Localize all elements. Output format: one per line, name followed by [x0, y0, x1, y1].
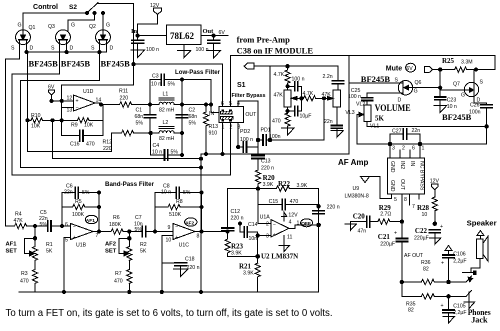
svg-text:220: 220 — [103, 146, 112, 152]
svg-text:C3: C3 — [152, 74, 159, 80]
svg-text:3.9K: 3.9K — [231, 251, 242, 257]
wire U1B noninverting to rail — [64, 237, 71, 292]
potentiometer 47K left — [274, 90, 299, 107]
node left pot bottom — [286, 110, 289, 113]
svg-text:910: 910 — [209, 131, 218, 137]
svg-text:C4: C4 — [153, 143, 160, 149]
row2 AF out to phones ring — [402, 295, 421, 297]
svg-text:NC BYPASS: NC BYPASS — [419, 161, 425, 191]
node R21 top — [256, 255, 260, 259]
wire x201 vertical to rail — [200, 154, 203, 292]
node preamp line — [286, 65, 289, 68]
capacitor C106 2.2uF — [441, 246, 467, 283]
wire 6V rail to S1 pin6 — [134, 64, 223, 107]
wire U1C output to C12 node — [195, 231, 228, 233]
capacitor C21 220uF — [378, 222, 408, 297]
oval OFF — [301, 219, 313, 227]
svg-text:82: 82 — [423, 267, 429, 273]
node R1 top — [33, 224, 36, 227]
svg-text:5%: 5% — [168, 82, 176, 88]
svg-text:G: G — [71, 23, 75, 29]
svg-text:S: S — [51, 46, 55, 52]
resistor R9 10K feedback — [62, 118, 103, 129]
svg-text:8: 8 — [404, 197, 407, 203]
svg-text:22n: 22n — [64, 190, 73, 196]
wire U1A noninverting input — [256, 234, 271, 256]
svg-text:10K: 10K — [84, 123, 94, 129]
resistor R4 47K — [14, 212, 48, 229]
wire S2 to BF245B rail — [97, 4, 134, 65]
node feedback rails U1B — [98, 191, 101, 233]
svg-text:6V: 6V — [406, 66, 413, 72]
svg-text:2.2n: 2.2n — [323, 74, 333, 80]
svg-text:Band-Pass Filter: Band-Pass Filter — [105, 181, 154, 188]
wire S1 pin5 up to audio line — [229, 56, 231, 107]
wire node B vertical — [181, 80, 183, 133]
svg-text:9: 9 — [168, 225, 171, 231]
resistor R25 3.3M — [440, 57, 476, 72]
resistor R11 220 — [118, 89, 150, 108]
capacitor PD1 100n — [256, 128, 280, 146]
capacitor C25 100n — [348, 88, 373, 105]
svg-text:100 n: 100 n — [146, 47, 159, 53]
svg-text:S2: S2 — [69, 4, 77, 11]
svg-text:22n: 22n — [324, 119, 333, 125]
resistor R23 3.9K — [225, 232, 258, 257]
capacitor 100n bias — [288, 77, 305, 112]
potentiometer VOLUME 5K — [345, 103, 410, 123]
svg-text:+: + — [394, 231, 397, 237]
resistor R8 510K feedback — [155, 199, 202, 218]
wire bandpass input line — [6, 225, 15, 227]
oval AF2 — [185, 218, 197, 227]
svg-text:5%: 5% — [136, 121, 144, 127]
svg-text:−: − — [175, 225, 178, 231]
svg-text:220: 220 — [120, 96, 129, 102]
switch S2 — [85, 3, 104, 15]
ground U1A pin11 — [279, 236, 290, 252]
svg-text:AF2: AF2 — [105, 242, 116, 248]
svg-text:5%: 5% — [189, 121, 197, 127]
svg-text:S: S — [91, 46, 95, 52]
capacitor C8 10n 5% feedback — [155, 184, 202, 232]
wire AF line to volume drop — [201, 153, 349, 155]
svg-text:6: 6 — [221, 101, 224, 107]
svg-text:Mute: Mute — [386, 66, 402, 73]
svg-text:3.3M: 3.3M — [461, 60, 473, 66]
capacitor C4 10n 5% — [151, 133, 184, 160]
svg-text:12V: 12V — [288, 213, 298, 219]
wire S1 pin3 to PD2 line — [237, 122, 239, 147]
svg-text:Low-Pass Filter: Low-Pass Filter — [175, 69, 220, 76]
svg-text:R25: R25 — [442, 57, 455, 65]
svg-text:82 mH: 82 mH — [159, 108, 175, 114]
svg-text:5K: 5K — [140, 249, 147, 255]
svg-text:GND: GND — [389, 180, 395, 192]
svg-text:C105: C105 — [453, 304, 466, 310]
potentiometer R1 5K — [25, 226, 53, 270]
potentiometer R2 5K — [119, 232, 147, 270]
svg-text:470: 470 — [20, 279, 29, 285]
switch S1 box — [209, 101, 257, 130]
svg-text:AF2: AF2 — [185, 220, 194, 226]
svg-text:U9: U9 — [353, 186, 360, 192]
svg-text:SET: SET — [105, 249, 117, 255]
wire U1A output down to rail — [318, 225, 320, 292]
wire Q6 source line — [349, 82, 403, 84]
svg-text:C26: C26 — [470, 103, 480, 109]
ground right pot — [330, 131, 343, 138]
svg-text:OUT: OUT — [399, 179, 405, 191]
svg-text:220 n: 220 n — [261, 166, 274, 172]
ground at 78L62 input cap — [131, 50, 145, 58]
capacitor C1 68n 5% — [135, 105, 156, 134]
svg-text:7: 7 — [412, 204, 415, 210]
phones jack switch contact — [463, 271, 477, 275]
svg-text:47K: 47K — [322, 92, 332, 98]
svg-text:SET: SET — [6, 249, 18, 255]
svg-text:R20: R20 — [263, 174, 276, 182]
inductor L2 82mH — [151, 120, 182, 142]
phones jack tip contact — [462, 276, 473, 282]
svg-text:R8: R8 — [176, 199, 183, 205]
capacitor C5 22n 5% — [39, 210, 71, 231]
oval AF1 — [85, 215, 97, 224]
wire U1D inverting input to feedback — [62, 107, 74, 109]
wire speaker to jack contact — [471, 259, 480, 273]
capacitor C3 10n 5% — [150, 74, 182, 105]
node C106 bottom — [447, 280, 450, 283]
svg-text:C1: C1 — [136, 108, 143, 114]
svg-text:6V: 6V — [219, 30, 226, 36]
node B top rail — [180, 78, 183, 81]
svg-text:47K: 47K — [14, 218, 24, 224]
resistor R28 10 — [417, 197, 437, 224]
svg-text:10n: 10n — [249, 236, 258, 242]
svg-text:OFF: OFF — [301, 221, 311, 227]
node R2 top — [128, 230, 131, 233]
svg-text:U1D: U1D — [83, 89, 94, 95]
capacitor C14 10n — [239, 222, 258, 242]
svg-text:VOLUME: VOLUME — [375, 103, 411, 113]
resistor R6 180K — [109, 215, 129, 234]
wire Q7 gate to bias node — [440, 89, 464, 91]
svg-text:R28: R28 — [417, 204, 430, 212]
wire R22 C15 right vertical — [317, 189, 320, 225]
svg-text:C12: C12 — [231, 209, 241, 215]
svg-text:470: 470 — [272, 119, 281, 125]
svg-text:2.7Ω: 2.7Ω — [380, 212, 391, 218]
capacitor 22n right pot — [324, 107, 342, 132]
wire amp input line — [357, 142, 487, 145]
wire filter output to S1 IN — [182, 105, 219, 113]
svg-text:Filter Bypass: Filter Bypass — [232, 93, 266, 99]
svg-text:Control: Control — [33, 4, 58, 11]
svg-text:10K: 10K — [31, 124, 41, 130]
svg-text:5%: 5% — [171, 150, 179, 156]
phones jack ring contact — [462, 291, 472, 303]
svg-text:D: D — [30, 46, 34, 52]
svg-text:5: 5 — [65, 238, 68, 244]
svg-text:68n: 68n — [189, 114, 198, 120]
ground C23 — [434, 106, 447, 113]
wire row1 to tip contact — [449, 281, 465, 283]
resistor R5 100K feedback — [62, 199, 99, 218]
svg-text:AF OUT: AF OUT — [404, 253, 424, 259]
node B mid — [180, 103, 183, 106]
wire Q1 gate to S2 contact 1 — [23, 13, 87, 30]
node mute gate bias — [439, 86, 442, 89]
wire pot bottom — [287, 107, 289, 114]
svg-text:6: 6 — [65, 222, 68, 228]
wire Q3 source to S1 pin2 bus — [12, 40, 59, 175]
svg-text:−: − — [76, 106, 79, 112]
svg-text:R2: R2 — [140, 242, 147, 248]
svg-text:R6: R6 — [113, 215, 120, 221]
resistor R22 3.9K feedback — [258, 180, 319, 191]
bottom rail — [19, 290, 319, 293]
svg-text:AF1: AF1 — [86, 218, 95, 224]
wire IF module audio line to right rail — [230, 56, 495, 70]
svg-text:Q2: Q2 — [89, 24, 96, 30]
node bias bus top — [51, 119, 54, 122]
capacitor C16 470 feedback — [62, 105, 103, 148]
svg-text:5%: 5% — [135, 227, 143, 233]
svg-text:2: 2 — [266, 222, 269, 228]
wire U1B output — [93, 231, 111, 233]
svg-text:220 n: 220 n — [231, 216, 244, 222]
resistor R10 10K — [28, 113, 62, 130]
capacitor 10uF bias — [288, 107, 312, 120]
capacitor C27 22n bridge — [390, 128, 420, 144]
capacitor 220n output — [313, 205, 340, 214]
wire S1 pin4 to C13 node — [238, 101, 258, 140]
svg-text:L2: L2 — [163, 120, 169, 126]
wire PD1 line to 47K wiper — [270, 98, 324, 140]
node U1D inverting — [60, 119, 63, 122]
svg-text:68n: 68n — [135, 114, 144, 120]
svg-text:220 n: 220 n — [187, 265, 200, 271]
svg-text:5%: 5% — [183, 190, 191, 196]
connector 12V at U9 — [430, 179, 440, 198]
wire Q2 source to S1 pin1 bus — [21, 40, 202, 168]
op-amp U1D — [67, 89, 102, 114]
svg-text:C2: C2 — [189, 108, 196, 114]
svg-text:+: + — [441, 303, 444, 309]
svg-text:−: − — [73, 225, 76, 231]
node rail junction — [132, 62, 135, 65]
wire U1D output node — [95, 103, 118, 106]
wire wiper down to amp line — [356, 115, 358, 145]
svg-text:IN2: IN2 — [399, 161, 405, 169]
svg-text:47n: 47n — [358, 229, 367, 235]
svg-text:U1A: U1A — [260, 215, 271, 221]
svg-text:R4: R4 — [15, 212, 22, 218]
svg-text:C20: C20 — [353, 213, 366, 221]
wire C3 rail to IN node — [182, 80, 211, 105]
svg-text:C18: C18 — [185, 257, 195, 263]
wire S1 pin1 to AF line — [222, 122, 224, 154]
svg-text:100 n: 100 n — [292, 77, 305, 83]
svg-text:78L62: 78L62 — [170, 31, 195, 41]
svg-text:S1: S1 — [237, 82, 246, 89]
svg-text:LM380N-8: LM380N-8 — [345, 194, 369, 200]
svg-text:BF245B: BF245B — [61, 58, 91, 68]
svg-text:BF245B: BF245B — [101, 58, 131, 68]
svg-text:82 mH: 82 mH — [159, 136, 175, 142]
op-amp U1C — [166, 224, 200, 249]
svg-text:+: + — [175, 235, 178, 241]
capacitor C105 2.2uF — [441, 296, 467, 317]
svg-text:10 n: 10 n — [161, 190, 171, 196]
svg-text:470: 470 — [290, 199, 299, 205]
capacitor 2.2n — [323, 74, 344, 90]
svg-text:R21: R21 — [239, 263, 252, 271]
wire pre-amp to PD1 vertical — [269, 66, 271, 140]
op-amp U1A — [260, 215, 300, 241]
svg-text:R9: R9 — [71, 123, 78, 129]
inductor L1 82mH — [150, 92, 182, 114]
svg-text:C15: C15 — [269, 199, 279, 205]
svg-text:G: G — [461, 93, 465, 99]
svg-text:Jack: Jack — [471, 316, 488, 325]
svg-text:100n: 100n — [269, 134, 281, 140]
wire row2 to ring contact — [449, 295, 465, 297]
row1 AF out to phones tip — [400, 280, 421, 283]
resistor R7 470 — [114, 270, 132, 293]
svg-text:−: − — [273, 222, 276, 228]
IC U9 LM380N-8 — [388, 144, 425, 222]
svg-text:C106: C106 — [453, 252, 466, 258]
supply bubble 6V mute — [406, 63, 416, 72]
svg-text:10µF: 10µF — [300, 114, 312, 120]
svg-text:10: 10 — [422, 212, 428, 218]
svg-text:C7: C7 — [135, 215, 142, 221]
svg-text:4.7K: 4.7K — [303, 91, 314, 97]
svg-text:+: + — [76, 98, 79, 104]
svg-text:U1B: U1B — [76, 243, 87, 249]
node Q7 source tap — [474, 68, 477, 71]
svg-text:Q7: Q7 — [453, 82, 460, 88]
node R25 left — [439, 68, 442, 71]
resistor R12 220 — [103, 130, 151, 152]
resistor R21 3.9K — [239, 256, 260, 292]
svg-text:IN: IN — [209, 111, 214, 117]
capacitor C6 22n 5% feedback — [62, 184, 99, 227]
wire U1A output — [289, 223, 320, 228]
wire R25 to gate node — [439, 70, 441, 97]
svg-text:10 n: 10 n — [152, 150, 162, 156]
svg-text:C22: C22 — [415, 227, 428, 235]
ground C18 — [173, 269, 188, 277]
op-amp U1B — [65, 222, 99, 249]
svg-text:VL3: VL3 — [345, 110, 354, 116]
svg-text:C14: C14 — [248, 222, 258, 228]
wire preamp line to 2.2n corner — [288, 66, 338, 80]
svg-text:4: 4 — [289, 220, 292, 226]
wire Q2 gate to S2 contact 3 — [102, 13, 104, 30]
capacitor C18 220n — [162, 257, 200, 272]
svg-text:D: D — [70, 46, 74, 52]
potentiometer 47K right — [322, 90, 341, 107]
svg-text:6: 6 — [412, 146, 415, 152]
svg-text:GND: GND — [389, 161, 395, 173]
label AF1 SET — [6, 242, 18, 255]
node U1C inverting — [154, 230, 157, 233]
capacitor C13 220n — [252, 140, 274, 172]
capacitor 100n at 78L62 output — [196, 36, 220, 53]
capacitor C22 220uF — [414, 224, 443, 242]
resistor R36 82 — [421, 260, 449, 285]
svg-text:180K: 180K — [109, 222, 122, 228]
svg-text:R10: R10 — [31, 113, 41, 119]
capacitor C12 220n — [222, 189, 258, 231]
resistor R13 910 — [203, 103, 218, 156]
svg-text:G: G — [414, 89, 418, 95]
capacitor 100n at 78L62 input — [132, 36, 159, 53]
node B2 lower — [180, 131, 183, 134]
resistor 470 bias — [272, 113, 290, 129]
wire volume bottom rail — [367, 122, 486, 127]
wire Q1 source to left bus — [6, 40, 20, 226]
ground at 78L62 output cap — [207, 51, 221, 59]
svg-text:Q3: Q3 — [48, 24, 55, 30]
svg-text:IN: IN — [409, 161, 415, 166]
wire Q6 drain to C25 — [367, 93, 403, 98]
svg-text:BF245B: BF245B — [29, 58, 59, 68]
label AF2 SET — [105, 242, 117, 255]
capacitor C15 470 feedback — [258, 199, 319, 210]
svg-text:5K: 5K — [46, 249, 53, 255]
node U1B inverting — [61, 225, 64, 228]
svg-text:5K: 5K — [375, 115, 385, 123]
svg-text:R13: R13 — [209, 124, 219, 130]
wire Q7 drain to C26 — [474, 96, 487, 103]
transistor Q6 — [395, 78, 422, 104]
svg-text:AF1: AF1 — [6, 242, 18, 248]
ground C22 — [429, 238, 441, 245]
wire switched node to U1D supply — [62, 64, 134, 120]
power 12V at U1A — [281, 212, 298, 221]
svg-text:+: + — [73, 235, 76, 241]
node A low-pass — [148, 103, 151, 106]
svg-text:D: D — [110, 46, 114, 52]
svg-text:Q1: Q1 — [29, 25, 36, 31]
svg-text:100K: 100K — [72, 212, 85, 218]
capacitor C2 68n 5% — [176, 108, 197, 127]
svg-text:from Pre-Amp: from Pre-Amp — [237, 35, 291, 45]
svg-text:S: S — [480, 80, 484, 86]
wire rail right vertical — [486, 126, 488, 144]
svg-text:S: S — [11, 46, 15, 52]
resistor R29 2.7ohm — [378, 204, 402, 224]
ground at 78L62 tab — [177, 44, 191, 58]
svg-text:C23: C23 — [447, 98, 457, 104]
connector 12V input — [138, 3, 162, 36]
svg-text:220µF: 220µF — [380, 242, 395, 248]
ground C20 — [345, 222, 357, 231]
svg-text:82: 82 — [408, 308, 414, 314]
svg-text:12: 12 — [67, 96, 73, 102]
connector mute control tag — [425, 67, 441, 73]
svg-text:2,2µF: 2,2µF — [453, 259, 466, 265]
wire audio drop to volume bottom — [348, 56, 350, 155]
svg-text:10 n: 10 n — [447, 104, 457, 110]
svg-text:C16: C16 — [70, 142, 80, 148]
svg-text:R36: R36 — [421, 260, 431, 266]
node C105 top — [447, 295, 450, 298]
wire U1C noninverting down — [162, 236, 173, 293]
